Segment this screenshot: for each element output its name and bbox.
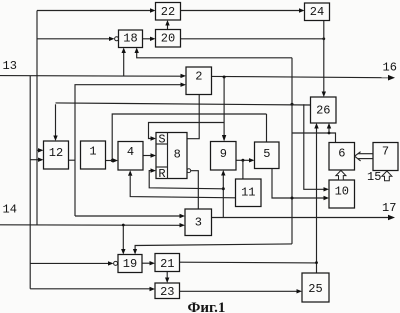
hollow arrow from 7 to 6 xyxy=(358,153,373,155)
block 1 xyxy=(81,141,106,169)
net5out long vertical x292 xyxy=(291,58,293,244)
wire to 12 second input xyxy=(30,159,39,161)
svg-text:15: 15 xyxy=(367,170,381,184)
wire down into 12 top xyxy=(55,104,57,135)
block 5 xyxy=(255,142,280,169)
svg-text:11: 11 xyxy=(241,185,255,199)
block 7 xyxy=(373,143,398,171)
svg-text:18: 18 xyxy=(123,32,137,46)
block 20 xyxy=(156,30,181,48)
block 26 xyxy=(311,97,337,123)
block 6 xyxy=(329,143,355,171)
wire branch to S input xyxy=(149,123,225,139)
wire 4 to 8 xyxy=(143,155,151,157)
block 19 xyxy=(118,255,142,273)
svg-text:22: 22 xyxy=(161,5,175,19)
block 3 xyxy=(185,209,212,236)
svg-text:2: 2 xyxy=(195,70,202,84)
svg-text:12: 12 xyxy=(49,146,63,160)
svg-text:R: R xyxy=(158,167,165,181)
wire 2 output down to 9 top xyxy=(223,77,225,136)
wire to block22 xyxy=(37,10,151,12)
wire net14 vertical x37 xyxy=(36,11,38,226)
svg-text:21: 21 xyxy=(160,257,174,271)
wire down to 5 top xyxy=(266,114,268,142)
svg-text:4: 4 xyxy=(127,145,134,159)
svg-text:13: 13 xyxy=(3,59,17,73)
wire 20 output to node under 24 xyxy=(181,38,324,40)
wire 13 branch vertical x30 xyxy=(29,76,31,289)
flip-flop 8 composite xyxy=(156,133,187,179)
hollow arrow from 10 up to 6 xyxy=(336,170,346,180)
wire 23 output to 25 xyxy=(180,290,298,292)
wire 24 bottom down to 26 top xyxy=(323,21,325,92)
wire node13 up to 18 bottom left xyxy=(123,53,125,76)
wire 19 to 21 xyxy=(142,262,150,264)
wire 8 inverted output down to 3 top xyxy=(191,171,199,209)
svg-text:17: 17 xyxy=(382,201,396,215)
node 13 input line to block 2 xyxy=(0,75,181,78)
svg-text:16: 16 xyxy=(383,61,397,75)
wire block3 output to terminal 17 xyxy=(212,217,390,219)
wire block12 output up to block 2 second input xyxy=(69,159,76,161)
wire to block18 xyxy=(37,38,110,40)
block 25 xyxy=(302,273,329,302)
wire 3 output up to 9 bottom xyxy=(222,176,224,218)
wire 21 output up to 26 bottom left and down to 25 top xyxy=(316,129,318,274)
wire 18 to 20 xyxy=(143,38,152,40)
wire net5out up to 18 bottom right xyxy=(137,53,292,58)
svg-text:5: 5 xyxy=(263,147,270,161)
svg-text:1: 1 xyxy=(89,145,96,159)
svg-text:8: 8 xyxy=(174,147,181,161)
svg-text:S: S xyxy=(158,132,165,146)
svg-text:6: 6 xyxy=(338,146,345,160)
wire block12 output down to block 3 first input xyxy=(75,215,181,217)
wire 11 output to 4 bottom xyxy=(130,176,235,198)
block 24 xyxy=(305,3,330,21)
wire 14 branch to 12 first input xyxy=(37,149,39,151)
svg-text:23: 23 xyxy=(160,285,174,299)
wire 21 output xyxy=(180,261,317,264)
svg-text:26: 26 xyxy=(316,104,330,118)
block 21 xyxy=(155,254,180,272)
hollow arrow input 15 into 7 bottom xyxy=(382,171,392,181)
svg-text:19: 19 xyxy=(123,257,137,271)
node 14 input line to block 3 xyxy=(0,224,181,227)
block 9 xyxy=(211,142,237,171)
block 22 xyxy=(156,3,181,21)
net5out horizontal y104 to 26 left xyxy=(56,103,311,105)
wire 2 bottom to 8 right side xyxy=(187,95,199,139)
svg-text:20: 20 xyxy=(161,31,175,45)
wire block2 output to terminal 16 xyxy=(212,76,390,77)
svg-text:24: 24 xyxy=(310,5,324,19)
wire 13 branch to 19 left xyxy=(30,262,108,264)
wire 22 to 24 xyxy=(181,10,301,12)
svg-text:25: 25 xyxy=(308,282,322,296)
junction on 16 line xyxy=(223,76,226,79)
wire net5out branch down to 10 upper input xyxy=(304,104,324,189)
svg-text:9: 9 xyxy=(220,147,227,161)
block 12 xyxy=(44,141,69,169)
horizontal feedback line y114 xyxy=(112,114,266,161)
block 18 xyxy=(119,30,143,48)
svg-text:Фиг.1: Фиг.1 xyxy=(188,300,226,313)
wire 13 branch along bottom to 23 xyxy=(30,288,149,290)
junction on 1-4 wire xyxy=(111,159,114,162)
junction xyxy=(291,103,294,106)
wire 14 branch down to 19 top left xyxy=(122,225,124,249)
svg-text:14: 14 xyxy=(3,203,17,217)
block 10 xyxy=(329,180,355,208)
wire 1 to 4 xyxy=(106,160,114,162)
net5out wire y244 to 19 top right xyxy=(135,244,292,249)
svg-text:7: 7 xyxy=(382,145,389,159)
wire 20 top to 22 bottom xyxy=(167,25,169,30)
svg-text:10: 10 xyxy=(335,185,349,199)
block 23 xyxy=(155,283,180,299)
block 4 xyxy=(118,142,143,171)
inversion bubble at 19 input xyxy=(114,261,118,265)
wire 5 bottom output xyxy=(272,169,324,199)
block 2 xyxy=(186,67,212,95)
wire 9 to 5 xyxy=(236,159,250,161)
inverted output of 8 xyxy=(187,169,191,173)
wire down to 11 top xyxy=(242,160,244,179)
svg-text:3: 3 xyxy=(195,216,202,230)
inversion bubble at 18 input xyxy=(115,37,119,41)
wire up into 26 bottom right xyxy=(328,129,330,134)
wire y188 to R input xyxy=(149,171,223,189)
block 11 xyxy=(236,179,262,207)
wire 21 down to 23 xyxy=(166,272,168,279)
wire y133 from x292 to 6 top xyxy=(292,133,336,143)
junction xyxy=(322,37,325,40)
